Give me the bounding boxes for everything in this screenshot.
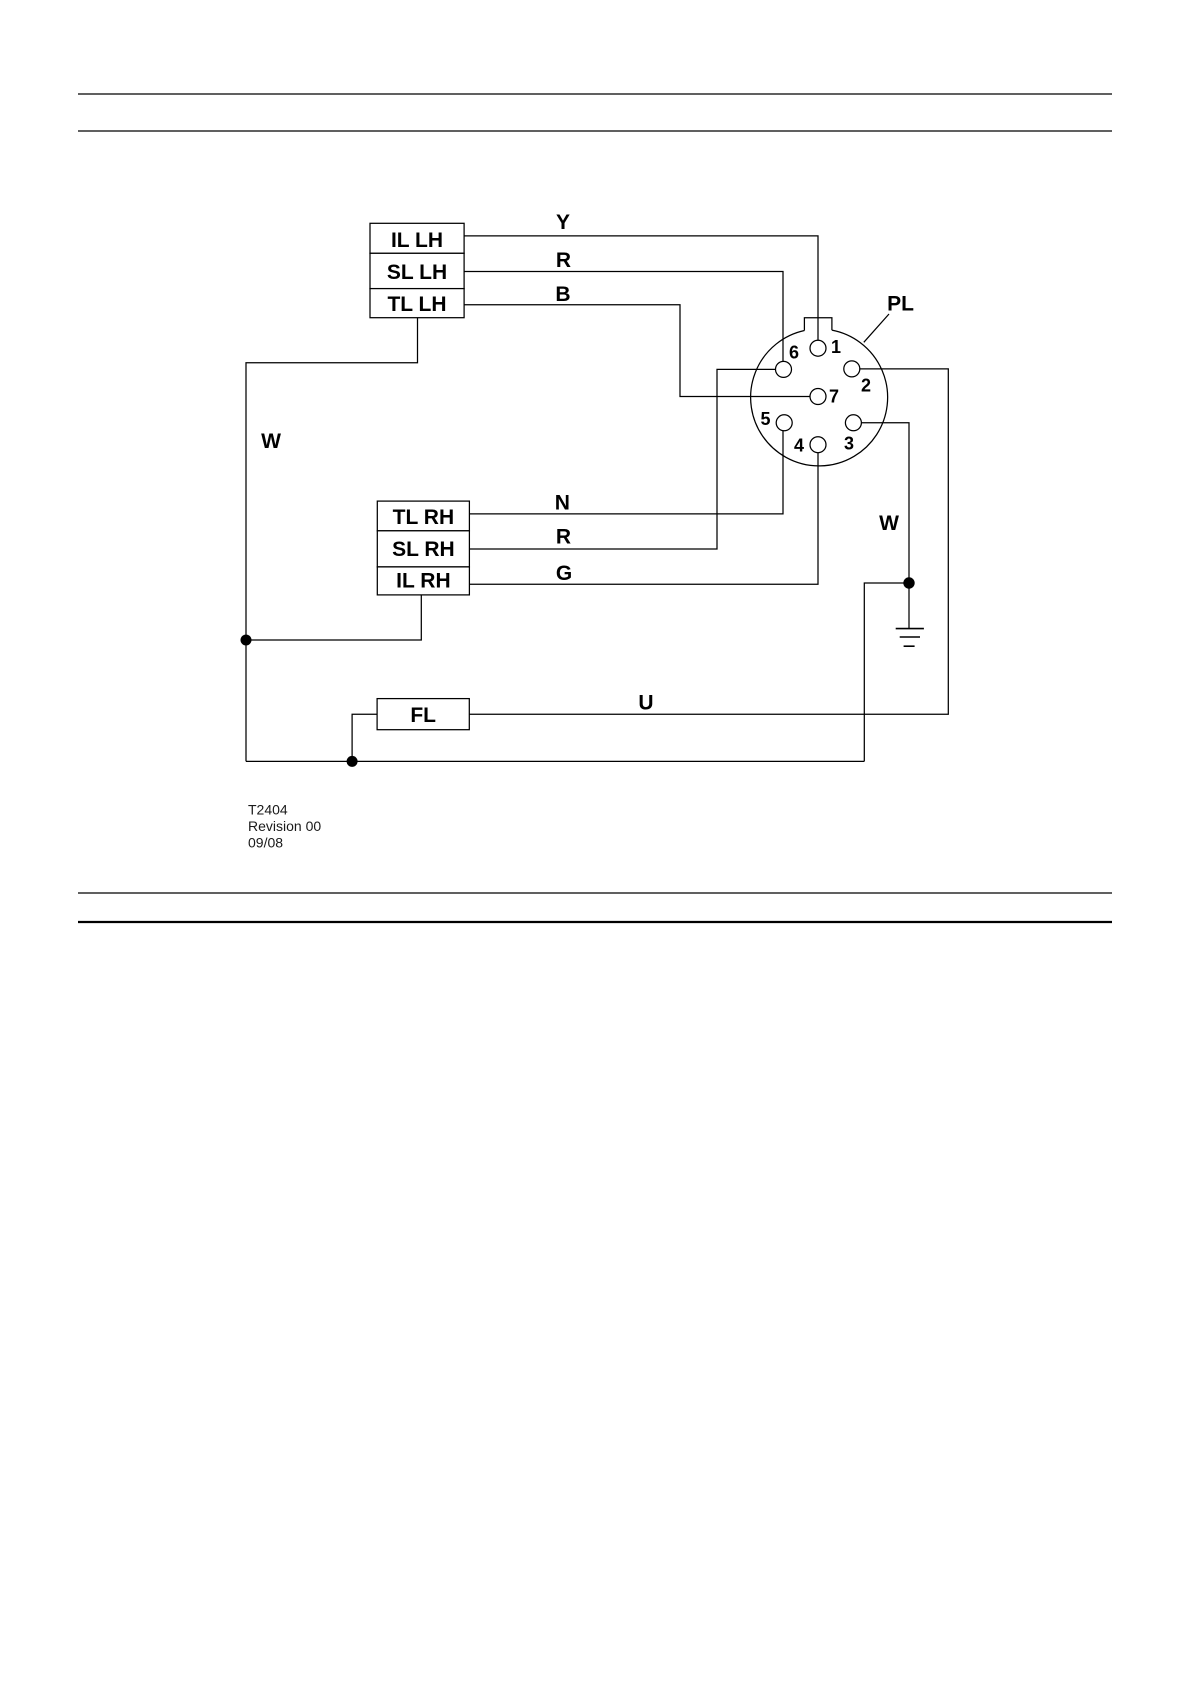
box IL RH — [377, 567, 469, 595]
header rule bottom — [78, 130, 1112, 132]
wire U from FL to pin 2 — [469, 369, 948, 714]
connector PL key tab — [804, 318, 832, 331]
svg-text:1: 1 — [831, 337, 841, 357]
wire W right from ground node to bottom wire — [864, 583, 909, 761]
wire R from SL LH to pin 6 top — [464, 272, 783, 362]
svg-text:SL RH: SL RH — [392, 538, 455, 561]
node junction dot on W bus at IL RH branch — [241, 635, 252, 646]
svg-text:G: G — [556, 562, 572, 585]
svg-text:7: 7 — [829, 387, 839, 407]
wire from pin 3 to ground node — [861, 423, 909, 583]
svg-text:T2404: T2404 — [248, 802, 288, 818]
svg-text:6: 6 — [789, 343, 799, 363]
wire Y from IL LH to pin 1 — [464, 236, 818, 341]
wire W left from TL LH down to bottom bus — [246, 318, 418, 762]
pin 2 — [844, 361, 860, 377]
footer rule thick — [78, 921, 1112, 923]
leader line to PL label — [864, 314, 889, 342]
box FL — [377, 699, 469, 730]
svg-text:FL: FL — [410, 704, 436, 727]
svg-text:PL: PL — [887, 293, 914, 316]
pin 1 — [810, 340, 826, 356]
pin 6 — [776, 361, 792, 377]
connector PL body circle with key notch gap — [751, 330, 888, 466]
svg-text:2: 2 — [861, 376, 871, 396]
svg-text:IL LH: IL LH — [391, 229, 443, 252]
wire from FL left to bottom bus — [352, 714, 377, 761]
pin 5 — [776, 415, 792, 431]
svg-text:W: W — [261, 430, 281, 453]
pin 7 — [810, 389, 826, 405]
wire B from TL LH to pin 7 — [464, 305, 810, 397]
svg-text:W: W — [879, 512, 899, 535]
ground symbol bar 1 — [896, 628, 924, 630]
svg-text:TL RH: TL RH — [393, 506, 454, 529]
svg-text:R: R — [556, 249, 571, 272]
wire G from IL RH to pin 4 — [469, 453, 818, 585]
pin 3 — [845, 415, 861, 431]
ground symbol bar 3 — [904, 645, 915, 647]
node junction dot at ground — [903, 577, 914, 588]
svg-text:09/08: 09/08 — [248, 835, 283, 851]
svg-text:IL RH: IL RH — [396, 570, 450, 593]
wire from IL RH to W bus junction — [246, 595, 421, 640]
wire ground stem — [908, 583, 910, 629]
pin 4 — [810, 437, 826, 453]
svg-text:B: B — [555, 283, 570, 306]
header rule top — [78, 93, 1112, 95]
box IL LH — [370, 223, 464, 253]
box TL LH — [370, 289, 464, 318]
wire R from SL RH to pin 6 left — [469, 369, 775, 549]
svg-text:4: 4 — [794, 436, 804, 456]
box TL RH — [377, 501, 469, 531]
svg-text:Y: Y — [556, 211, 570, 234]
svg-text:R: R — [556, 526, 571, 549]
box SL LH — [370, 253, 464, 288]
svg-text:Revision 00: Revision 00 — [248, 818, 321, 834]
wire N from TL RH to pin 5 — [469, 431, 783, 514]
svg-text:U: U — [638, 691, 653, 714]
footer rule thin — [78, 892, 1112, 894]
box SL RH — [377, 531, 469, 567]
wire bottom earth bus — [246, 760, 864, 762]
svg-text:N: N — [555, 492, 570, 515]
svg-text:TL LH: TL LH — [387, 293, 446, 316]
svg-text:3: 3 — [844, 434, 854, 454]
ground symbol bar 2 — [900, 636, 920, 638]
node junction dot on bottom bus at FL branch — [347, 756, 358, 767]
svg-text:SL LH: SL LH — [387, 261, 447, 284]
svg-text:5: 5 — [760, 409, 770, 429]
